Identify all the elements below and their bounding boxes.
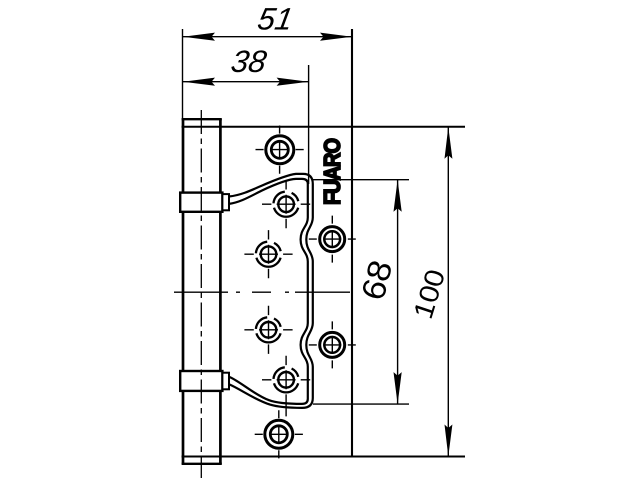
plate right edge (with 51 extension line)	[351, 29, 353, 458]
dimension line 68	[394, 180, 402, 404]
svg-text:FUARO: FUARO	[319, 139, 346, 205]
screw hole B (countersunk)	[262, 180, 310, 228]
hinge horizontal centerline	[174, 291, 350, 293]
dimension line 38	[183, 78, 309, 86]
barrel bottom cap	[182, 463, 222, 465]
barrel axis centerline	[200, 110, 202, 478]
svg-text:68: 68	[354, 260, 400, 302]
top collar	[180, 193, 222, 212]
screw hole A (top)	[256, 126, 304, 174]
barrel right edge	[219, 119, 222, 464]
leaf folded edge outer line	[229, 174, 313, 408]
screw hole D (right upper)	[309, 216, 356, 263]
top collar tab	[222, 194, 229, 210]
dimension line 51	[183, 33, 352, 41]
screw hole F (countersunk)	[244, 306, 292, 354]
screw hole H (bottom)	[255, 410, 303, 458]
plate bottom edge (with 100 extension line)	[182, 456, 466, 458]
dimension line 100	[445, 127, 453, 457]
dimension 68 extension line bottom	[313, 403, 409, 405]
screw hole E (right lower)	[309, 321, 356, 368]
svg-text:100: 100	[407, 269, 452, 320]
screw hole C (countersunk)	[244, 230, 292, 278]
screw hole G (countersunk)	[262, 356, 310, 417]
svg-text:51: 51	[255, 2, 296, 37]
barrel top cap	[182, 118, 222, 120]
dimension 38 extension line right	[308, 65, 310, 184]
barrel left edge	[182, 119, 185, 464]
bottom collar	[180, 371, 222, 391]
plate top edge (with 100 extension line)	[182, 126, 466, 128]
leaf folded edge inner line	[229, 179, 308, 404]
bottom collar tab	[222, 373, 229, 390]
svg-text:38: 38	[229, 44, 270, 79]
dimension 68 extension line top	[313, 179, 409, 181]
dimension 51 extension line left	[182, 29, 184, 119]
